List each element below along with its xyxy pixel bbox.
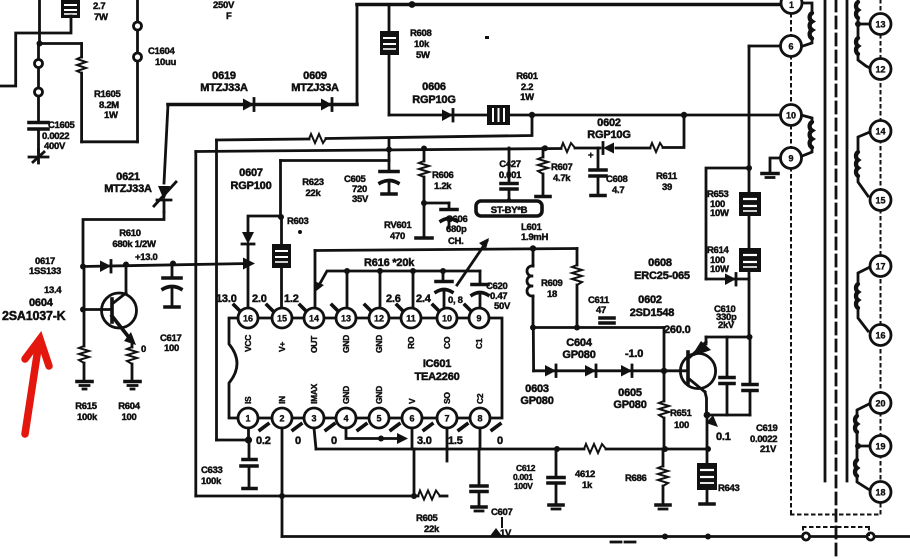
wire (40, 42, 82, 45)
svg-text:0.1: 0.1 (716, 431, 731, 443)
wire (+13 rail) (83, 264, 248, 267)
svg-text:4: 4 (343, 414, 348, 424)
pin 11 (401, 308, 421, 328)
svg-text:15: 15 (875, 196, 885, 206)
node (705, 446, 711, 452)
connector circle 10 (781, 105, 802, 126)
pin 13 (336, 308, 356, 328)
svg-text:100: 100 (674, 420, 689, 431)
label D605 GP080 (613, 387, 646, 411)
connector point (134, 22, 142, 30)
diode D605 (621, 365, 632, 377)
capacitor (pin8 / C607 branch) (471, 449, 487, 511)
svg-text:12: 12 (875, 65, 885, 75)
node (681, 112, 687, 118)
resistor R686 (656, 449, 670, 509)
label R623 22k (302, 177, 324, 199)
inductor L601 (527, 249, 533, 328)
label R611 39 (656, 171, 678, 193)
pin 7 (437, 408, 457, 428)
svg-text:0: 0 (141, 344, 146, 355)
svg-text:RGP10G: RGP10G (412, 94, 455, 106)
pin 9 (469, 308, 489, 328)
wire (706, 415, 709, 449)
resistor (boxed, pin15 column) (272, 217, 291, 307)
svg-text:R623: R623 (302, 177, 324, 188)
connector point (802, 533, 809, 540)
dotted boundary (horizontal) (791, 514, 881, 516)
svg-text:C604: C604 (566, 337, 593, 349)
svg-text:1SS133: 1SS133 (29, 266, 61, 277)
wire pin13 column (346, 271, 349, 307)
svg-text:1W: 1W (104, 110, 118, 121)
label C620 0.47 50V (486, 281, 511, 312)
label C617 100 (160, 333, 182, 354)
label R651 100 (670, 408, 693, 431)
label R603 (287, 216, 309, 234)
label C619 0.0022 21V (750, 423, 778, 455)
resistor R615 (79, 267, 89, 381)
diode (vertical, on pin16 column) (242, 232, 254, 244)
svg-text:10: 10 (442, 314, 452, 324)
node (411, 493, 417, 499)
secondary winding (17-16) (856, 267, 870, 331)
svg-text:R611: R611 (656, 171, 678, 182)
label R615 100k (75, 401, 98, 423)
svg-text:0604: 0604 (29, 297, 54, 309)
svg-text:13: 13 (341, 314, 351, 324)
svg-text:2.7: 2.7 (93, 1, 105, 12)
svg-text:IC601: IC601 (423, 358, 451, 370)
red annotation arrow (25, 339, 49, 434)
svg-text:680k 1/2W: 680k 1/2W (112, 239, 156, 250)
wire (bottom rail) (282, 535, 910, 538)
label R607 4.7k (551, 162, 573, 184)
pin 5 (369, 408, 389, 428)
connector circle 1 (top, partial) (781, 0, 802, 14)
svg-text:C633: C633 (201, 465, 223, 476)
pin 1 (238, 408, 258, 428)
resistor R643 (boxed) (697, 449, 717, 504)
node (662, 446, 668, 452)
node (421, 200, 427, 206)
pin 16 (238, 308, 258, 328)
arrowhead into pin16 column (243, 258, 255, 270)
wire (38, 0, 41, 44)
speck (485, 36, 489, 39)
svg-text:0608: 0608 (648, 257, 672, 269)
svg-text:1W: 1W (520, 92, 534, 103)
svg-text:IS: IS (243, 396, 253, 404)
svg-text:12: 12 (374, 314, 384, 324)
wire (279, 161, 282, 218)
node (278, 214, 284, 220)
svg-text:GP080: GP080 (520, 395, 553, 407)
label R608 10k 5W (410, 28, 432, 61)
svg-text:5: 5 (376, 414, 381, 424)
label R609 18 (541, 278, 563, 300)
svg-text:C607: C607 (491, 507, 513, 518)
svg-text:RO: RO (406, 336, 416, 349)
resistor R1605 (vertical zigzag) (77, 44, 86, 142)
capacitor C608 (588, 148, 606, 196)
svg-text:100: 100 (164, 343, 179, 354)
node (377, 268, 383, 274)
node (662, 534, 668, 540)
label C607 1V (490, 507, 513, 539)
svg-text:C1605: C1605 (48, 120, 76, 131)
connector circle 18 (870, 482, 891, 503)
svg-text:35V: 35V (352, 194, 369, 205)
svg-text:+: + (588, 150, 594, 161)
wire (707, 414, 750, 417)
connector circle 14 (870, 121, 891, 142)
wire (D606 row y=115) (389, 114, 781, 117)
node (0.2) (245, 436, 252, 443)
svg-text:-1.0: -1.0 (625, 348, 643, 360)
pin 4 (336, 408, 356, 428)
capacitor (pin10 column) (436, 271, 452, 307)
svg-text:2.6: 2.6 (386, 293, 401, 305)
svg-text:1.9mH: 1.9mH (521, 232, 548, 243)
svg-text:22k: 22k (306, 188, 322, 199)
label C610 330p 2kV (714, 304, 737, 331)
wire (bus to pin1 node) (215, 140, 218, 440)
svg-text:R603: R603 (287, 216, 309, 227)
svg-text:GND: GND (341, 335, 351, 353)
primary winding (pins 1-6) (801, 3, 812, 46)
svg-text:R651: R651 (670, 408, 693, 419)
label C612 0.001 100V (513, 463, 536, 491)
svg-text:4612: 4612 (575, 469, 595, 480)
svg-text:RGP10G: RGP10G (587, 129, 630, 141)
wire pin14 column (314, 251, 317, 308)
wire (top rail) (357, 3, 781, 7)
svg-text:2kV: 2kV (718, 320, 735, 331)
capacitor C612 (548, 449, 564, 509)
svg-text:11: 11 (406, 314, 416, 324)
svg-text:0606: 0606 (422, 81, 446, 93)
node (530, 245, 536, 251)
dashes under rail (611, 541, 635, 544)
wire y=140 with resistor R623 (217, 115, 533, 143)
emitter arrow (706, 415, 718, 427)
diode (on y=148 row, pointing left) (603, 143, 614, 154)
svg-text:10W: 10W (710, 208, 729, 219)
svg-text:100k: 100k (201, 476, 222, 487)
svg-text:V: V (407, 398, 417, 404)
label D603 GP080 (520, 383, 553, 407)
svg-text:16: 16 (875, 331, 885, 341)
label Q604 2SA1037-K (2, 297, 66, 323)
svg-text:RGP100: RGP100 (231, 180, 272, 192)
svg-text:470: 470 (390, 231, 405, 242)
label D608 ERC25-065 (634, 257, 690, 282)
wire (0, 16, 71, 86)
resistor R651 (659, 371, 669, 449)
svg-text:1k: 1k (582, 480, 593, 491)
svg-text:IMAX: IMAX (309, 383, 319, 404)
svg-text:VCC: VCC (243, 335, 253, 352)
pin 10 (437, 308, 457, 328)
wire to pin 6 circle (749, 45, 781, 48)
diode D604 (585, 365, 596, 377)
svg-text:R604: R604 (118, 401, 141, 412)
core line (center, dashed) (835, 0, 838, 559)
label R605 22k (416, 513, 440, 535)
label D606 RGP10G (412, 81, 455, 106)
svg-text:10W: 10W (710, 264, 729, 275)
diode D603 (545, 365, 556, 377)
svg-text:MTZJ33A: MTZJ33A (200, 82, 248, 94)
connector circle 13 (870, 14, 891, 35)
svg-text:9: 9 (476, 314, 481, 324)
capacitor C617 (163, 264, 181, 308)
value label 2.7 7W (93, 1, 108, 23)
svg-text:15: 15 (277, 314, 287, 324)
label RV601 470 (384, 220, 412, 242)
svg-text:OUT: OUT (309, 335, 319, 353)
node (440, 268, 446, 274)
svg-text:R609: R609 (541, 278, 563, 289)
wire (circle 9 ground hook) (770, 158, 781, 172)
svg-text:3: 3 (311, 414, 316, 424)
label R612 1k (575, 469, 595, 491)
svg-text:R643: R643 (718, 483, 740, 494)
svg-text:0602: 0602 (597, 117, 621, 129)
node (410, 268, 416, 274)
secondary winding (13-12) (856, 24, 870, 68)
capacitor C605 (380, 138, 398, 194)
svg-text:0.001: 0.001 (499, 170, 522, 181)
svg-text:2SA1037-K: 2SA1037-K (2, 309, 66, 323)
capacitor C427 (501, 148, 517, 202)
svg-text:C2: C2 (475, 393, 485, 404)
wire pin6 column (411, 428, 414, 449)
secondary dashed bus (880, 0, 882, 514)
label R610 680k 1/2W (112, 228, 156, 250)
secondary winding (14-15) (856, 132, 870, 196)
svg-text:R606: R606 (432, 170, 454, 181)
transistor Q604 2SA1037 (83, 265, 137, 346)
wire (L601 column extension) (532, 328, 535, 371)
svg-text:GND: GND (341, 386, 351, 404)
wire (706, 168, 749, 279)
pin 12 (369, 308, 389, 328)
connector circle 6 (781, 36, 802, 57)
svg-text:6: 6 (409, 414, 414, 424)
svg-text:10: 10 (786, 111, 796, 121)
svg-text:R610: R610 (119, 228, 141, 239)
svg-text:7W: 7W (94, 12, 108, 23)
svg-text:2SD1548: 2SD1548 (630, 307, 675, 319)
svg-text:7: 7 (444, 414, 449, 424)
resistor R601 (boxed, horizontal) (487, 105, 510, 125)
wire pin2 column (281, 428, 284, 537)
svg-text:4.7: 4.7 (612, 185, 624, 196)
svg-text:0, 8: 0, 8 (448, 295, 463, 306)
pin ticks (top row) (234, 305, 473, 313)
diode D608 (706, 274, 749, 286)
wire pin16 column (247, 244, 250, 307)
label D607 RGP100 (231, 167, 272, 192)
svg-text:V+: V+ (277, 342, 287, 352)
node (123, 262, 129, 268)
wire 260.0 row (706, 336, 750, 339)
node (emitter) (704, 412, 711, 419)
label D604 GP080 (562, 337, 595, 361)
svg-text:8: 8 (477, 414, 482, 424)
svg-text:400V: 400V (44, 141, 66, 152)
wire pin1 to 0.2 node (217, 428, 249, 440)
svg-text:50V: 50V (494, 301, 511, 312)
wire C1604 column (136, 0, 139, 142)
resistor R608 (boxed) (380, 5, 399, 116)
svg-text:ST-BY*B: ST-BY*B (491, 205, 528, 216)
svg-text:100k: 100k (77, 412, 98, 423)
label IC601 TEA2260 (414, 358, 459, 383)
wire x=749 top (748, 46, 751, 337)
svg-text:18: 18 (547, 289, 557, 300)
label C1604 10uu (148, 46, 176, 68)
zener diode D621 (154, 182, 176, 212)
svg-text:100: 100 (122, 412, 137, 423)
node (386, 147, 392, 153)
svg-text:R1605: R1605 (94, 89, 122, 100)
svg-text:0621: 0621 (116, 171, 140, 183)
node (574, 325, 580, 331)
secondary winding (20-19) (855, 404, 870, 449)
diode D619 (243, 99, 254, 111)
svg-text:SO: SO (442, 392, 452, 404)
label R601 2.2 1W (516, 71, 539, 103)
label R653 100 10W (707, 189, 729, 219)
label D617 1SS133 (29, 256, 61, 277)
svg-text:21V: 21V (760, 444, 777, 455)
node (746, 165, 752, 171)
diode D617 (100, 261, 111, 273)
svg-text:13.0: 13.0 (216, 293, 237, 305)
svg-text:2.4: 2.4 (416, 293, 432, 305)
diode D609 (321, 99, 332, 111)
dotted boundary (lower) (803, 527, 869, 535)
connector circle 9 (781, 148, 802, 169)
wire pin4 hook with arrow (346, 428, 408, 444)
resistor R606 (416, 149, 432, 239)
capacitor C633 (241, 440, 257, 489)
svg-text:R601: R601 (516, 71, 539, 82)
svg-text:10uu: 10uu (155, 57, 176, 68)
svg-text:6: 6 (788, 42, 793, 52)
wire pin12 column (379, 271, 382, 307)
node (421, 146, 427, 152)
svg-text:1.2k: 1.2k (434, 181, 452, 192)
svg-text:14: 14 (309, 314, 319, 324)
label R604 100 (118, 401, 141, 423)
svg-text:CO: CO (442, 336, 452, 349)
label C427 0.001 (499, 159, 522, 181)
connector circle 12 (870, 59, 891, 80)
wire pin7 stub (446, 428, 449, 461)
connector circle 20 (870, 393, 891, 414)
resistor R609 (572, 249, 582, 328)
svg-text:0602: 0602 (638, 294, 662, 306)
label R606 1.2k (432, 170, 454, 192)
diode D606 (442, 110, 453, 122)
node (747, 334, 753, 340)
label C608 4.7 (606, 174, 628, 196)
wire pin11 column (412, 271, 415, 307)
svg-text:250V: 250V (213, 0, 235, 11)
label C633 100k (201, 465, 223, 487)
boxed label ST-BY+B (476, 201, 542, 216)
ground (R604) (125, 382, 140, 390)
node (529, 112, 535, 118)
capacitor C619 (743, 337, 757, 415)
wire (413, 449, 416, 496)
capacitor C1605 (29, 123, 48, 153)
core line (right) (846, 0, 849, 481)
svg-text:1: 1 (789, 0, 794, 10)
node (279, 493, 285, 499)
svg-text:GND: GND (374, 335, 384, 353)
svg-text:9: 9 (788, 154, 793, 164)
wire (GP080 diode row) (534, 369, 687, 372)
svg-text:0619: 0619 (212, 70, 236, 82)
svg-text:CH.: CH. (448, 236, 463, 247)
wire y=493.5 with resistor R605 (196, 491, 447, 500)
svg-text:+13.0: +13.0 (135, 252, 158, 263)
wire y=149 long row (196, 115, 684, 152)
svg-text:C619: C619 (756, 423, 778, 434)
connector point (867, 533, 874, 540)
wire (356, 5, 359, 105)
capacitor C620 (pin9 column) (472, 271, 488, 307)
label C606 680p CH. (446, 214, 468, 247)
label C611 47 (588, 295, 610, 316)
resistor R604 (127, 343, 137, 381)
svg-text:R616 *20k: R616 *20k (364, 257, 415, 269)
node (554, 446, 560, 452)
svg-text:MTZJ33A: MTZJ33A (291, 82, 339, 94)
label D609 MTZJ33A (291, 70, 339, 94)
svg-text:0: 0 (295, 435, 301, 447)
ground (R615) (77, 382, 92, 390)
pin 15 (272, 308, 292, 328)
label 250V F (213, 0, 235, 22)
capacitor (snubber a) (720, 337, 734, 415)
svg-text:14: 14 (875, 127, 885, 137)
wire pin3 column (314, 428, 316, 449)
svg-text:0.2: 0.2 (256, 435, 271, 447)
primary winding (pins 10-9) (801, 115, 812, 156)
node (80, 264, 86, 270)
svg-text:39: 39 (662, 182, 672, 193)
svg-text:0603: 0603 (525, 383, 549, 395)
resistor R653 (boxed) (739, 192, 761, 216)
connector circle 19 (870, 436, 891, 457)
svg-text:680p: 680p (446, 224, 467, 235)
svg-text:GP080: GP080 (562, 349, 595, 361)
svg-text:260.0: 260.0 (664, 324, 691, 336)
connector circle 15 (870, 190, 891, 211)
connector circle 17 (870, 256, 891, 277)
adjustment arrow (RV601) (457, 238, 489, 285)
ground (C1605) (29, 150, 48, 163)
svg-text:C427: C427 (499, 159, 521, 170)
svg-text:F: F (226, 11, 232, 22)
wire (R603 hook) (248, 216, 281, 231)
